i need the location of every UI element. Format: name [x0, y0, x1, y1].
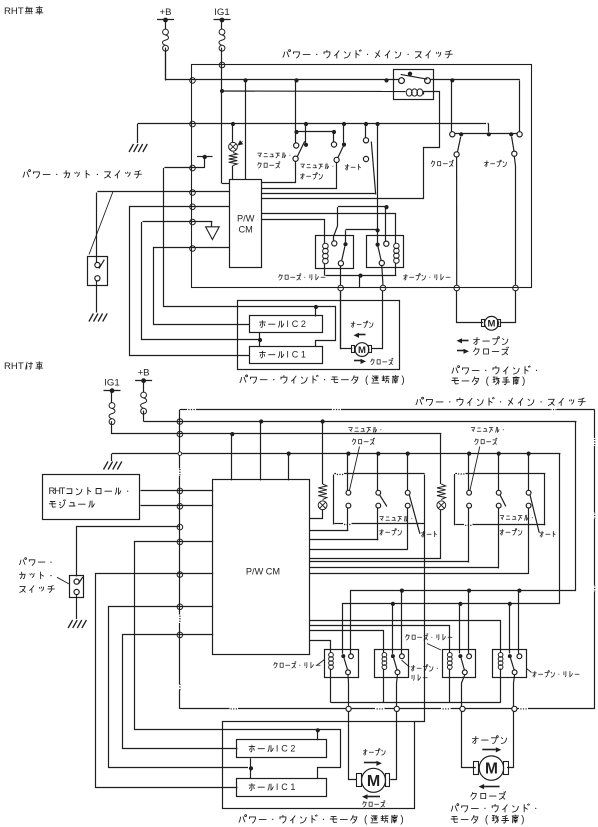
svg-text:CM: CM [239, 225, 253, 235]
svg-text:C: C [281, 782, 288, 792]
svg-text:IG1: IG1 [104, 378, 119, 389]
svg-text:(: ( [485, 815, 489, 826]
svg-text:): ) [401, 375, 404, 386]
svg-text:C: C [292, 350, 299, 360]
svg-text:(: ( [364, 815, 368, 826]
svg-text:(: ( [486, 376, 490, 387]
svg-text:2: 2 [301, 319, 306, 329]
svg-text:RHT: RHT [4, 361, 24, 372]
svg-text:1: 1 [301, 350, 306, 360]
svg-text:I: I [276, 744, 279, 754]
svg-text:(: ( [365, 375, 369, 386]
svg-text:M: M [485, 761, 498, 778]
svg-text:+B: +B [159, 7, 171, 18]
svg-text:P/W CM: P/W CM [246, 567, 280, 577]
svg-text:): ) [522, 376, 525, 387]
svg-text:M: M [358, 345, 366, 356]
svg-text:I: I [286, 319, 289, 329]
svg-text:M: M [488, 319, 496, 330]
svg-text:RHT: RHT [4, 6, 24, 17]
svg-text:M: M [367, 773, 380, 790]
svg-text:I: I [286, 350, 289, 360]
svg-text:C: C [281, 744, 288, 754]
svg-text:C: C [292, 319, 299, 329]
svg-text:IG1: IG1 [214, 7, 229, 18]
svg-text:1: 1 [290, 782, 295, 792]
svg-text:): ) [400, 815, 403, 826]
svg-text:P/W: P/W [237, 214, 255, 224]
svg-text:+B: +B [138, 368, 150, 379]
svg-text:T: T [60, 486, 66, 497]
svg-text:2: 2 [290, 744, 295, 754]
svg-text:): ) [521, 815, 524, 826]
svg-text:I: I [276, 782, 279, 792]
